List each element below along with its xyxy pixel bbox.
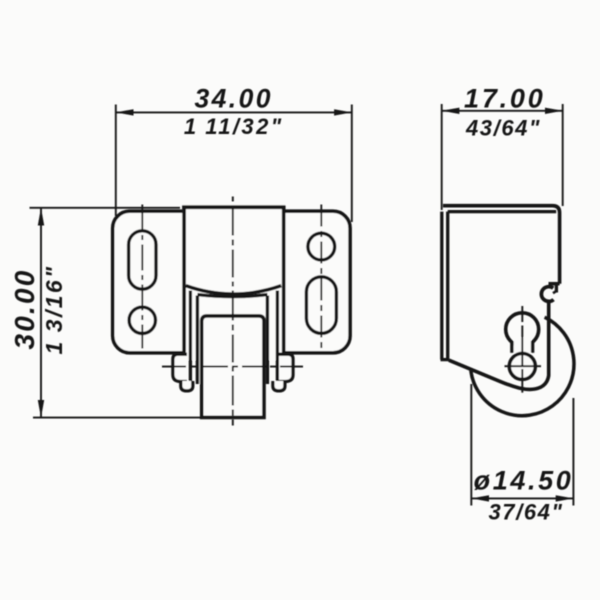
keyhole slot right side	[531, 341, 534, 353]
axle hole side view	[509, 353, 535, 379]
axle centerline front	[162, 366, 303, 368]
tire silhouette fill	[197, 295, 267, 384]
side view housing top	[443, 206, 560, 284]
fork foot left	[181, 381, 193, 391]
hole centerline left	[141, 205, 143, 349]
svg-text:34.00: 34.00	[195, 84, 273, 114]
dim 14.50 line	[471, 497, 573, 499]
axle cup left	[173, 354, 187, 381]
fork leg inner edge right	[276, 291, 279, 389]
tire right side	[266, 296, 269, 385]
fork face erase top	[182, 203, 285, 296]
fork right edge	[282, 206, 286, 389]
hook notch tick	[553, 291, 556, 293]
dim 14.50 extension right	[572, 398, 574, 506]
dim 30.00 arrow top	[38, 208, 44, 226]
side view hook inner line	[555, 284, 558, 293]
dim 30.00 line	[40, 208, 42, 418]
tire top arc	[197, 295, 267, 297]
dim 34.00 extension left	[115, 105, 117, 217]
keyhole bulb	[506, 313, 539, 346]
side view housing bottom profile	[449, 300, 549, 390]
dim 30.00 arrow bottom	[38, 400, 44, 418]
fork erase bottom	[184, 346, 283, 360]
svg-text:17.00: 17.00	[464, 84, 546, 114]
svg-text:43/64": 43/64"	[465, 116, 541, 141]
swivel axis centerline	[232, 197, 234, 426]
dim 34.00 arrow left	[116, 109, 134, 115]
round hole right	[308, 233, 335, 260]
dim 34.00 line	[116, 111, 352, 113]
side view plate bottom cap	[441, 358, 450, 361]
keyhole slot left side	[510, 341, 513, 353]
keyhole slot erase	[514, 338, 531, 354]
tire left side	[196, 296, 199, 385]
side view plate top line	[448, 210, 557, 213]
slot hole right	[306, 277, 336, 334]
dim 17.00 extension left	[441, 104, 443, 210]
side view hook curl	[541, 287, 553, 302]
svg-text:1 11/32": 1 11/32"	[184, 114, 284, 139]
dim 34.00 arrow right	[334, 109, 352, 115]
wheel circle side view	[471, 317, 574, 415]
fork crown arc	[186, 286, 281, 294]
wheel tread face	[202, 316, 264, 418]
fork top edge	[182, 205, 285, 209]
fork left edge	[182, 206, 186, 389]
dim 17.00 arrow right	[545, 108, 563, 114]
dim 17.00 extension right	[562, 104, 564, 206]
svg-text:ø14.50: ø14.50	[474, 466, 574, 496]
fork foot right	[273, 381, 285, 391]
fork leg inner edge left	[189, 291, 192, 389]
dim 34.00 extension right	[351, 105, 353, 223]
round hole left	[129, 307, 155, 333]
dim 14.50 arrow right	[556, 495, 574, 501]
axle crosshair horizontal	[505, 365, 542, 367]
svg-text:1 3/16": 1 3/16"	[41, 265, 67, 355]
mounting plate	[113, 211, 350, 353]
axle crosshair vertical	[521, 306, 523, 393]
dim 17.00 arrow left	[442, 108, 460, 114]
side view hook notch	[549, 282, 560, 286]
slot hole left	[129, 231, 156, 289]
dim 14.50 extension left	[470, 384, 472, 506]
svg-text:37/64": 37/64"	[488, 500, 563, 525]
axle cup right	[279, 354, 293, 381]
svg-text:30.00: 30.00	[9, 268, 40, 349]
side view plate front face	[440, 212, 443, 360]
hole centerline right	[320, 205, 322, 349]
ground line / 30mm bottom extension	[33, 417, 266, 419]
side view plate back face	[446, 212, 449, 360]
dim 14.50 arrow left	[471, 495, 489, 501]
dim 17.00 line	[442, 110, 563, 112]
dim 30.00 top extension	[30, 207, 181, 209]
